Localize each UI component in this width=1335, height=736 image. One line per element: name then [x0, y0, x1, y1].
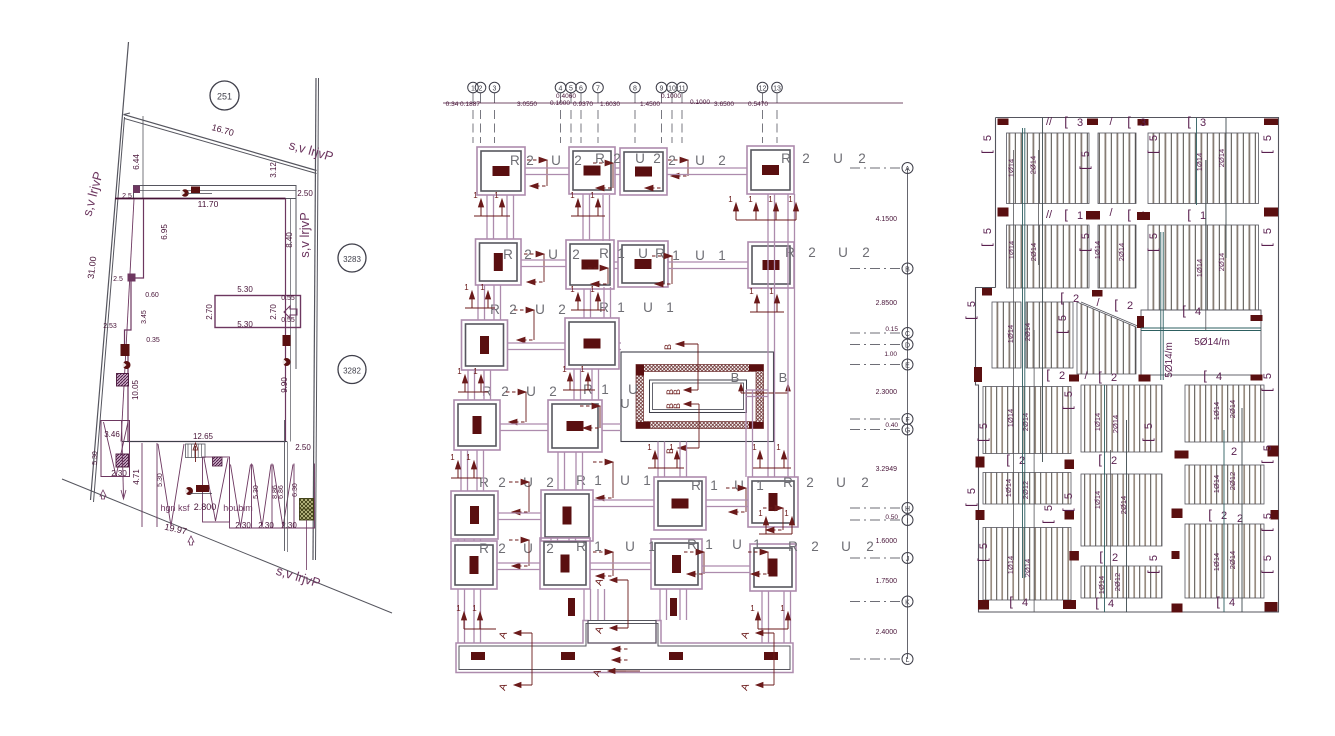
svg-text:2: 2	[501, 384, 509, 399]
svg-text:U: U	[833, 151, 843, 166]
svg-text:1: 1	[594, 473, 602, 488]
svg-text:7: 7	[596, 85, 600, 92]
svg-text:U: U	[732, 537, 742, 552]
grid line dashes below circle 11	[681, 93, 683, 103]
beams below F18 to stair box	[583, 589, 585, 620]
svg-text:B: B	[779, 370, 788, 385]
building top band outer rectangle	[134, 186, 297, 199]
site plan north boundary line 16.70 inner	[125, 119, 317, 174]
footing F9 column dark rect	[480, 336, 489, 354]
beam F13-F14 horizontal	[498, 512, 541, 514]
svg-text:[: [	[979, 243, 994, 247]
slab ramp slanted panel	[1077, 302, 1136, 374]
svg-text:[: [	[1095, 595, 1099, 610]
svg-text:A: A	[905, 166, 910, 173]
svg-text:[: [	[1187, 114, 1191, 129]
footing F5 inner square	[480, 243, 518, 281]
footing F7 column dark rect	[635, 259, 652, 269]
slab hatched panel P12	[1026, 302, 1073, 368]
beams below F13	[457, 539, 459, 541]
svg-text:1Ø14: 1Ø14	[1007, 159, 1016, 177]
grid circle J	[902, 553, 913, 564]
svg-text:U: U	[841, 539, 851, 554]
beam F5-F6 horizontal	[521, 259, 566, 261]
right stall V 2	[253, 465, 272, 528]
svg-text:[: [	[1259, 528, 1274, 532]
svg-text:2Ø14: 2Ø14	[1117, 243, 1126, 261]
svg-text:1: 1	[1200, 210, 1206, 222]
footing F19 inner square	[655, 543, 698, 585]
svg-text:12: 12	[759, 85, 767, 92]
svg-text:5Ø14/m: 5Ø14/m	[1194, 337, 1230, 348]
footing F20 inner square	[754, 548, 792, 587]
svg-text:6.86: 6.86	[278, 485, 285, 499]
svg-text:[: [	[1259, 388, 1274, 392]
door sill dark rect on top band	[191, 187, 200, 194]
staircase arrow up	[195, 446, 197, 462]
svg-text:K: K	[905, 599, 910, 606]
svg-text:3.2949: 3.2949	[876, 466, 898, 473]
svg-text:2: 2	[546, 541, 554, 556]
svg-text:4: 4	[559, 85, 563, 92]
svg-text:5: 5	[966, 488, 978, 494]
svg-text:D: D	[905, 342, 910, 349]
footing F16 column dark rect	[769, 493, 778, 511]
hook arrows row6	[509, 539, 522, 541]
svg-text:1: 1	[750, 604, 755, 613]
footing F4 column dark rect	[762, 165, 779, 175]
svg-text:[: [	[1064, 207, 1068, 222]
svg-text:1: 1	[647, 443, 652, 452]
svg-text:1Ø14: 1Ø14	[1093, 413, 1102, 431]
svg-text:0.35: 0.35	[146, 337, 160, 344]
teal line x1225 partial	[1225, 118, 1227, 258]
svg-text:6.95: 6.95	[160, 224, 169, 240]
svg-text:B: B	[672, 403, 682, 409]
svg-text:1: 1	[570, 285, 575, 294]
svg-text:0.55: 0.55	[281, 317, 295, 324]
footing F6 inner square	[570, 244, 610, 285]
footing F8 inner square	[752, 246, 790, 284]
site plan bottom diagonal road line	[62, 479, 392, 613]
svg-text:5: 5	[1262, 228, 1274, 234]
footing F14 column dark rect	[563, 507, 572, 525]
svg-text:U: U	[638, 246, 648, 261]
slab hatched panel P19	[983, 473, 1071, 505]
svg-text:2.50: 2.50	[295, 443, 311, 452]
strip footing outer outline	[456, 621, 793, 673]
svg-text:R: R	[595, 151, 605, 166]
grid dash-dot line F	[850, 418, 900, 420]
svg-text:5: 5	[1262, 513, 1274, 519]
svg-text:[: [	[1006, 452, 1010, 467]
grid line dashes below circle 8	[634, 93, 636, 103]
svg-text:[: [	[1145, 248, 1160, 252]
svg-text:3.45: 3.45	[141, 310, 148, 324]
arrow clusters tank bottom	[654, 457, 656, 468]
building right wall outer line	[295, 186, 297, 370]
beams below F14	[550, 538, 552, 541]
svg-text:[: [	[1127, 114, 1131, 129]
footing F6 column dark rect	[582, 260, 599, 270]
svg-text:2.5: 2.5	[113, 276, 123, 283]
svg-text:5: 5	[1148, 135, 1160, 141]
svg-text:1: 1	[472, 604, 477, 613]
svg-text:2: 2	[808, 245, 816, 260]
svg-text:1: 1	[728, 195, 733, 204]
svg-text:5: 5	[1148, 233, 1160, 239]
svg-text:2Ø14: 2Ø14	[1217, 149, 1226, 167]
svg-text:[: [	[1054, 330, 1069, 334]
svg-text:2Ø14: 2Ø14	[1111, 415, 1120, 433]
svg-text:1: 1	[464, 283, 469, 292]
tank outer rectangle	[621, 352, 774, 442]
slab hatched panel P17	[1185, 385, 1264, 442]
beam F3-F4 horizontal	[667, 167, 747, 169]
svg-text:1.4500: 1.4500	[640, 101, 660, 108]
svg-text:1: 1	[780, 604, 785, 613]
svg-text:0.1000: 0.1000	[661, 93, 681, 100]
footing F12 inner square	[552, 404, 598, 448]
svg-text:5: 5	[1262, 445, 1274, 451]
door circle mid yard	[185, 487, 193, 495]
svg-text:U: U	[695, 153, 705, 168]
grid dash-dot line L	[850, 658, 900, 660]
grid line dashes below circle 9	[661, 93, 663, 103]
svg-text:[: [	[1098, 452, 1102, 467]
stall divider line mid x157	[156, 443, 158, 527]
svg-text:3: 3	[1077, 117, 1083, 129]
footing F15 inner square	[658, 481, 702, 526]
svg-text:B: B	[905, 266, 910, 273]
bottom yard horizontal line 12.65	[123, 441, 288, 443]
slab hatched panel P29	[1185, 524, 1264, 598]
svg-text:2: 2	[574, 153, 582, 168]
grid circle E	[902, 359, 913, 370]
svg-text:[: [	[1040, 520, 1055, 524]
svg-text:U: U	[526, 384, 536, 399]
right parking stalls rectangle	[230, 464, 315, 529]
building top band inner line	[137, 190, 296, 192]
svg-text:R: R	[503, 247, 513, 262]
grid circle 8	[630, 82, 641, 93]
small column rect between rows right	[670, 598, 677, 616]
grid line dashes below circle 12	[762, 93, 764, 103]
dimension line 6.44 vertical	[142, 116, 144, 199]
svg-text:2.70: 2.70	[205, 304, 214, 320]
hook small bottom mid	[612, 648, 629, 650]
footing F9 outer square	[462, 320, 508, 370]
footing F2 inner square	[573, 151, 611, 190]
arrow clusters row4-5	[457, 467, 459, 478]
svg-text:11: 11	[678, 85, 685, 92]
footing F11 column dark rect	[473, 416, 482, 434]
svg-text:[: [	[1259, 150, 1274, 154]
svg-text:10: 10	[668, 85, 676, 92]
svg-text:2: 2	[862, 245, 870, 260]
footing F7 outer square	[618, 241, 668, 287]
tank hatched ring fill	[636, 365, 764, 429]
svg-text:R: R	[785, 245, 795, 260]
svg-text:1: 1	[749, 287, 754, 296]
door sill mid yard dark rect	[196, 485, 209, 492]
beams below F2-F3	[582, 194, 584, 240]
footing F8 outer square	[748, 242, 794, 288]
svg-text:2.30: 2.30	[235, 521, 251, 530]
beam F19-F20 horizontal	[702, 565, 750, 567]
svg-text://: //	[1046, 209, 1053, 221]
svg-text:0.50: 0.50	[885, 514, 898, 521]
grid line dashes below circle 1	[472, 93, 474, 103]
svg-text:13: 13	[773, 85, 781, 92]
grid dash-dot line G	[850, 429, 900, 431]
svg-text:5: 5	[966, 301, 978, 307]
footing F13 inner square	[455, 495, 494, 535]
svg-text:0.4060: 0.4060	[556, 93, 576, 100]
svg-text:1: 1	[617, 300, 625, 315]
svg-text:s,v lrjvP: s,v lrjvP	[297, 212, 312, 258]
svg-text:2.800: 2.800	[194, 502, 217, 512]
svg-text:U: U	[836, 475, 846, 490]
svg-text:4.1500: 4.1500	[876, 216, 898, 223]
svg-text:1: 1	[705, 537, 713, 552]
svg-text:8.40: 8.40	[285, 232, 294, 248]
grid circle L	[902, 654, 913, 665]
svg-text:U: U	[625, 539, 635, 554]
strip column rects	[471, 652, 485, 660]
svg-text:2: 2	[1127, 300, 1133, 312]
hook arrows row4	[506, 391, 519, 393]
svg-text:2: 2	[668, 153, 676, 168]
tank corner block bottom-right	[749, 422, 764, 429]
svg-text:5.30: 5.30	[157, 473, 164, 487]
svg-text:2Ø14: 2Ø14	[1029, 243, 1038, 261]
svg-text:1: 1	[473, 367, 478, 376]
svg-text:5: 5	[978, 543, 990, 549]
svg-text:2: 2	[806, 475, 814, 490]
grid circle 4	[555, 82, 566, 93]
beams below F10	[573, 369, 575, 400]
footing F17 column dark rect	[470, 556, 479, 574]
grid line dashes below circle 13	[776, 93, 778, 103]
svg-text:3.46: 3.46	[104, 430, 120, 439]
grid circle H	[902, 503, 913, 514]
grid circle B	[902, 263, 913, 274]
footing F19 outer square	[651, 539, 702, 589]
stall region mid-right rect	[203, 457, 230, 522]
footing F18 column dark rect	[561, 555, 570, 573]
svg-text:[: [	[1060, 290, 1064, 305]
svg-text:3: 3	[1140, 117, 1146, 129]
svg-text:5: 5	[569, 85, 573, 92]
svg-text:2.3000: 2.3000	[876, 389, 898, 396]
svg-text:houbim: houbim	[223, 503, 253, 513]
svg-text:2.30: 2.30	[258, 521, 274, 530]
footing F6 outer square	[566, 240, 614, 289]
svg-text:2: 2	[1231, 446, 1237, 458]
arrow clusters bottom right	[757, 618, 759, 629]
svg-text:2.70: 2.70	[269, 304, 278, 320]
left parking stall V lines	[104, 422, 129, 476]
left parking hatched square	[116, 454, 129, 467]
svg-text:9.90: 9.90	[280, 377, 289, 393]
svg-text:U: U	[643, 300, 653, 315]
svg-text:1Ø14: 1Ø14	[1004, 479, 1013, 497]
inner yard vertical line x287-550	[287, 442, 289, 553]
footing F12 outer square	[548, 400, 602, 452]
svg-text:1Ø14: 1Ø14	[1093, 241, 1102, 259]
slab hatched panel P4	[1148, 133, 1259, 204]
slab bottom-right white room 5ø14	[1141, 310, 1261, 375]
footing F5 column dark rect	[494, 253, 503, 271]
svg-text:2.4000: 2.4000	[876, 629, 898, 636]
stair box above strip	[588, 621, 656, 644]
svg-text:1: 1	[784, 509, 789, 518]
footing F4 outer square	[747, 146, 794, 194]
svg-text:5Ø14/m: 5Ø14/m	[1164, 342, 1175, 378]
svg-text:[: [	[1060, 406, 1075, 410]
right stalls divider 1	[251, 464, 253, 529]
svg-text:[: [	[1182, 303, 1186, 318]
svg-text:[: [	[963, 316, 978, 320]
building outline main polygon	[125, 199, 286, 442]
north arrow mid bottom	[188, 536, 194, 545]
svg-text:5: 5	[1043, 505, 1055, 511]
boundary line segment to bottom with arrow	[122, 420, 124, 497]
left parking stall rectangle	[101, 421, 130, 477]
beams below F19	[659, 589, 661, 620]
svg-text:1Ø14: 1Ø14	[1093, 491, 1102, 509]
svg-text:2.53: 2.53	[103, 323, 117, 330]
svg-text:[: [	[1140, 438, 1155, 442]
right stalls divider 3	[293, 464, 295, 529]
svg-text:2.30: 2.30	[111, 469, 127, 478]
grid circle 12	[757, 82, 768, 93]
staircase rungs	[187, 444, 189, 458]
svg-text:R: R	[781, 151, 791, 166]
svg-text:[: [	[975, 438, 990, 442]
svg-text://: //	[1046, 116, 1053, 128]
grid dash-dot line A	[850, 167, 900, 169]
beam F1-F2 horizontal	[525, 167, 569, 169]
footing F3 outer square	[620, 148, 667, 195]
footing F20 column dark rect	[769, 559, 778, 577]
svg-text:251: 251	[217, 92, 232, 102]
svg-text:4: 4	[1022, 597, 1028, 609]
teal vertical line pair full height left	[1022, 128, 1024, 578]
svg-text:5.30: 5.30	[92, 451, 99, 465]
svg-text:[: [	[963, 503, 978, 507]
svg-text:[: [	[1064, 114, 1068, 129]
svg-text:[: [	[1099, 549, 1103, 564]
svg-text:U: U	[838, 245, 848, 260]
svg-text:1.6030: 1.6030	[600, 101, 620, 108]
site plan north boundary line 16.70 outer	[124, 115, 317, 171]
svg-text:6.44: 6.44	[132, 154, 141, 170]
svg-text:6.30: 6.30	[292, 483, 299, 497]
svg-text:1: 1	[466, 453, 471, 462]
footing F1 inner square	[481, 151, 521, 191]
svg-text:R: R	[490, 302, 500, 317]
svg-text:1: 1	[1077, 210, 1083, 222]
svg-text:1: 1	[769, 287, 774, 296]
svg-text:12.65: 12.65	[193, 432, 214, 441]
plot number circle 3282	[338, 356, 366, 384]
svg-text:G: G	[905, 427, 910, 434]
svg-text:[: [	[1098, 369, 1102, 384]
svg-text:[: [	[1145, 570, 1160, 574]
svg-text:2: 2	[1019, 455, 1025, 467]
svg-text:5.30: 5.30	[237, 285, 253, 294]
svg-text:4: 4	[1229, 597, 1235, 609]
left wall lower segment line	[121, 199, 134, 442]
footing F9 inner square	[466, 324, 504, 366]
dark rect fixture mid-left	[121, 344, 130, 356]
olive hatched utility squares	[300, 499, 314, 521]
footing F8 column dark rect	[763, 260, 780, 270]
svg-text:[: [	[1187, 207, 1191, 222]
svg-text:[: [	[1060, 508, 1075, 512]
tank corner block bottom-left	[636, 422, 650, 429]
svg-text:2: 2	[549, 384, 557, 399]
footing F1 outer square	[477, 147, 525, 195]
svg-text:[: [	[1259, 570, 1274, 574]
tank corner block top-right	[749, 365, 764, 372]
filled circle fixture mid-left	[123, 361, 131, 369]
beam F14-F15 horizontal	[593, 499, 654, 501]
svg-text:2: 2	[802, 151, 810, 166]
open arrow symbol right of room	[284, 306, 297, 318]
svg-text:1: 1	[473, 191, 478, 200]
svg-text:[: [	[1077, 248, 1092, 252]
grid circle F	[902, 414, 913, 425]
svg-text:I: I	[907, 518, 909, 525]
door swing symbol filled circle	[181, 189, 189, 197]
svg-text:5.30: 5.30	[237, 320, 253, 329]
grid circle G	[902, 424, 913, 435]
grid dash-dot line C	[850, 332, 900, 334]
svg-text:[: [	[1216, 594, 1220, 609]
svg-text:1: 1	[648, 539, 656, 554]
svg-text:2: 2	[526, 153, 534, 168]
svg-text:2.30: 2.30	[281, 521, 297, 530]
plot number circle 3283	[338, 244, 366, 272]
svg-text:hgn ksf: hgn ksf	[160, 503, 190, 513]
footing F10 outer square	[565, 318, 619, 369]
svg-text:0.1000: 0.1000	[690, 99, 710, 106]
svg-text:R: R	[599, 246, 609, 261]
svg-text:0.1887: 0.1887	[460, 101, 480, 108]
svg-text:1: 1	[718, 248, 726, 263]
svg-text:6: 6	[579, 85, 583, 92]
svg-text:[: [	[979, 150, 994, 154]
svg-text:U: U	[695, 248, 705, 263]
slab column dark rects	[998, 119, 1009, 126]
svg-text:2: 2	[479, 85, 483, 92]
svg-text:5.30: 5.30	[253, 485, 260, 499]
svg-text:1: 1	[450, 453, 455, 462]
beams below F6-F7	[583, 289, 585, 318]
grid circle 9	[656, 82, 667, 93]
svg-text:2: 2	[572, 247, 580, 262]
footing F16 inner square	[752, 481, 794, 523]
svg-text:1: 1	[643, 473, 651, 488]
svg-text:2Ø14: 2Ø14	[1217, 253, 1226, 271]
svg-text:[: [	[1009, 594, 1013, 609]
arrow clusters row2-3	[471, 297, 473, 308]
grid line dashes below circle 2	[480, 93, 482, 103]
interior room rectangle 5.30 x 2.70	[215, 296, 301, 328]
